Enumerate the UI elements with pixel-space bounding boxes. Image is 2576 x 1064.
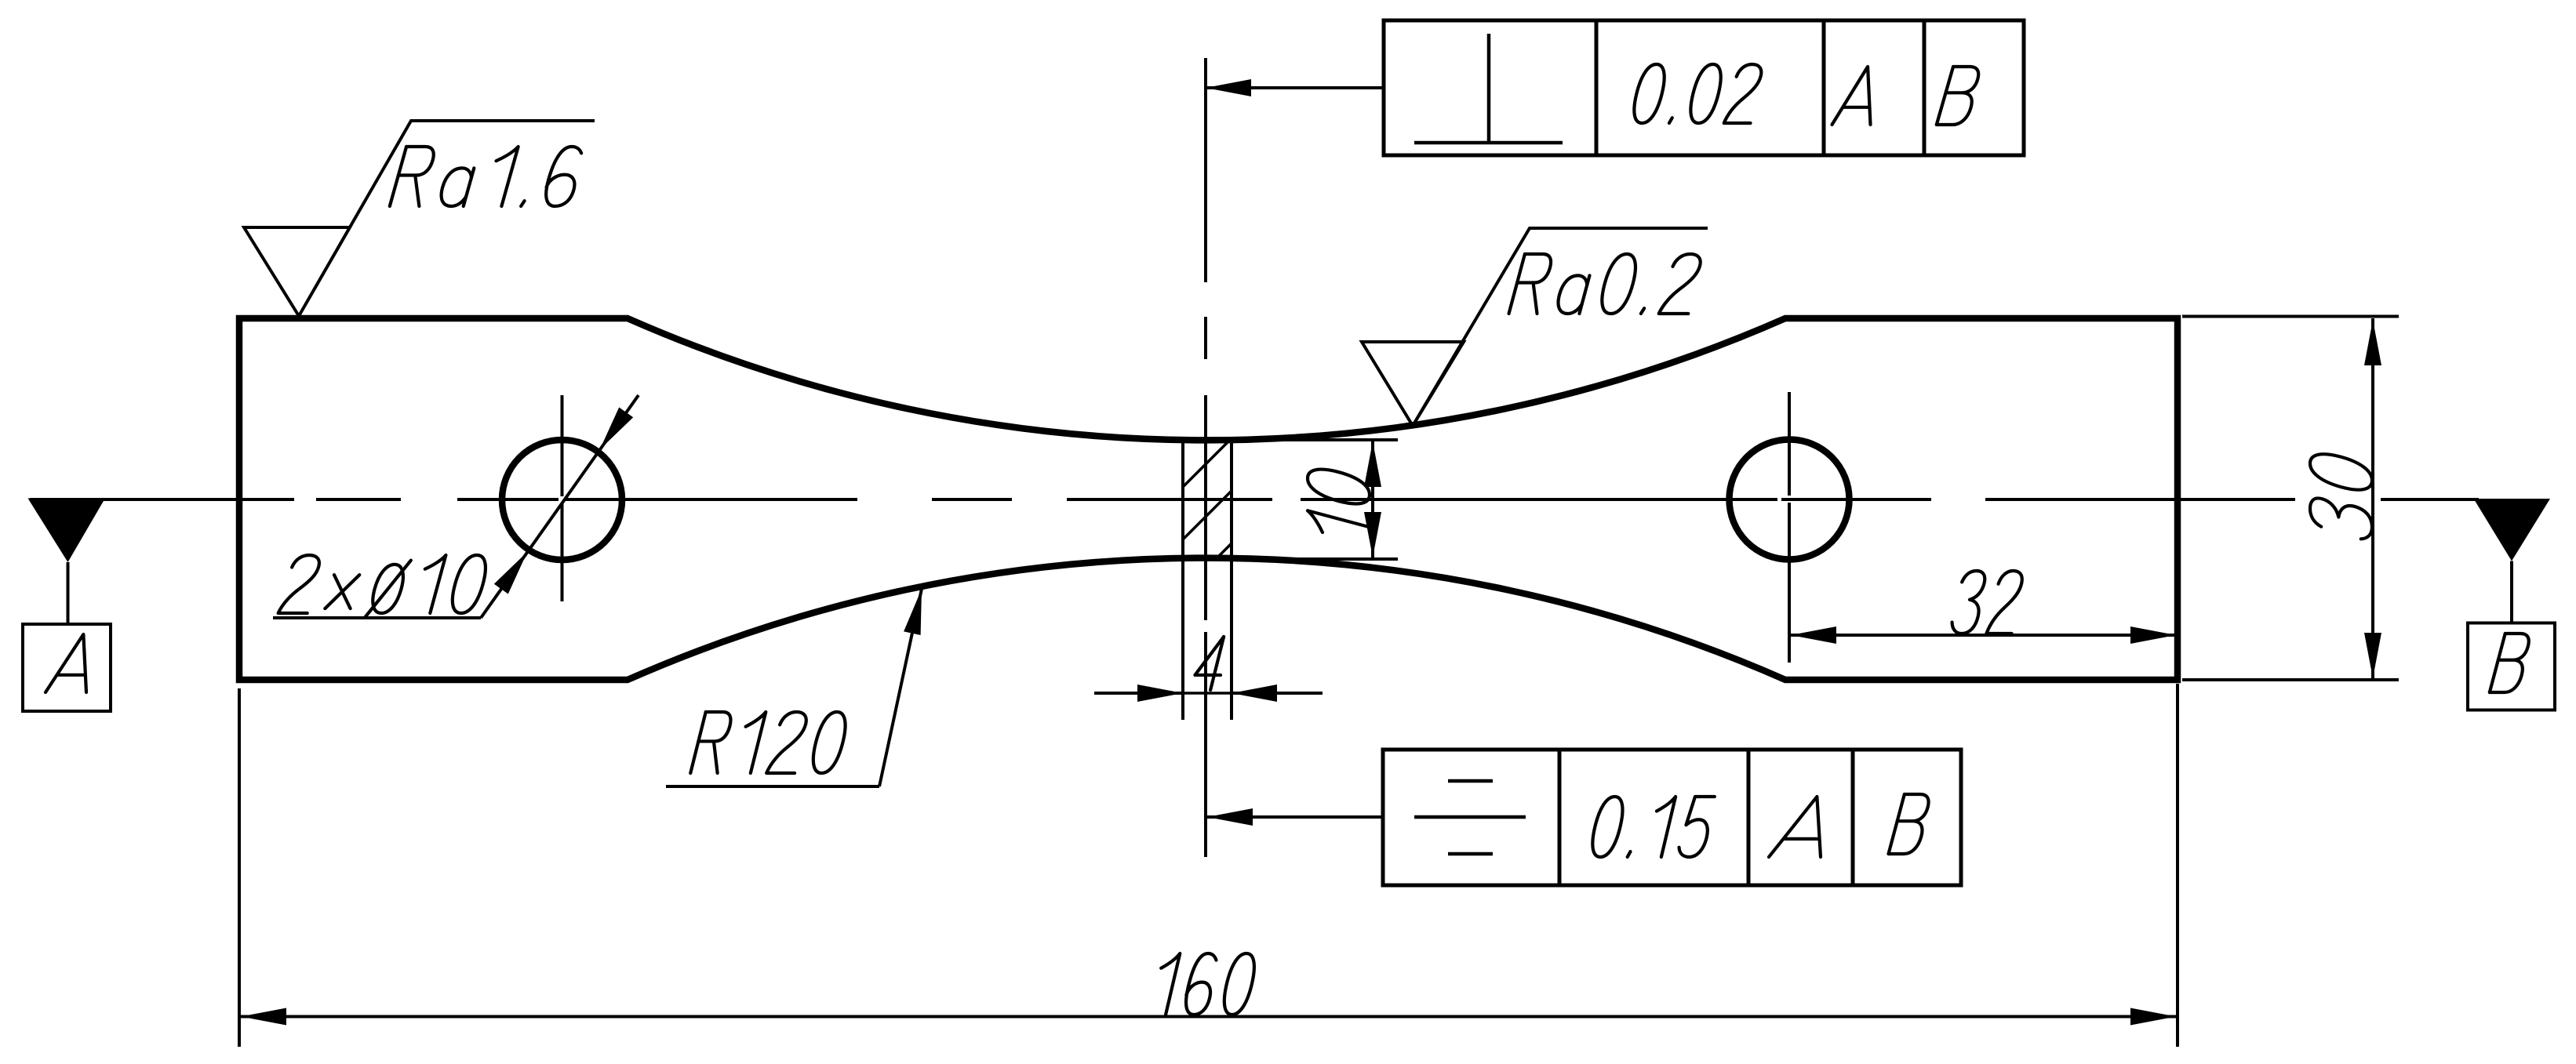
text R120 bbox=[690, 712, 850, 773]
dim 10 text bbox=[1308, 464, 1370, 545]
leader to bottom FCF bbox=[1206, 815, 1383, 819]
dim 160 text bbox=[1150, 953, 1259, 1015]
dim 32 text bbox=[1949, 571, 2025, 634]
symmetry symbol bbox=[1414, 815, 1526, 819]
datum B stem bbox=[2510, 561, 2513, 623]
text 2x dia10 bbox=[277, 555, 491, 617]
datum B letter bbox=[2490, 634, 2533, 692]
datum B box bbox=[2468, 623, 2555, 710]
text Ra1.6 bbox=[390, 147, 586, 206]
specimen outline bbox=[239, 318, 2178, 680]
FCF top texts bbox=[1629, 64, 1765, 123]
dim 160 line bbox=[239, 1015, 2178, 1019]
dim 10 line bbox=[1371, 440, 1374, 559]
perpendicularity symbol bbox=[1487, 34, 1491, 143]
datum A stem bbox=[67, 562, 70, 624]
surface symbol Ra0.2 bbox=[1362, 228, 1708, 426]
FCF perpendicularity box bbox=[1384, 20, 2024, 155]
horizontal centerline bbox=[30, 498, 294, 501]
dim 32 line bbox=[1789, 634, 2178, 637]
surface symbol Ra1.6 bbox=[244, 121, 595, 316]
hole left 2x dia10 bbox=[502, 440, 622, 560]
leader 2x dia10 bbox=[481, 395, 639, 618]
dim 30 line bbox=[2371, 318, 2374, 680]
hole right 2x dia10 bbox=[1730, 440, 1850, 560]
dim 30 text bbox=[2310, 448, 2372, 542]
text Ra0.2 bbox=[1509, 254, 1705, 314]
FCF bottom texts bbox=[1588, 797, 1716, 857]
datum B triangle bbox=[2474, 499, 2551, 561]
leader to top FCF bbox=[1204, 86, 1384, 89]
section hatching bbox=[1183, 438, 1232, 592]
datum A triangle bbox=[28, 499, 106, 563]
dim 30 extension lines bbox=[2182, 315, 2399, 318]
dim 4 text bbox=[1192, 637, 1231, 690]
crosshair left hole bbox=[561, 395, 564, 496]
leader R120 bbox=[666, 785, 879, 788]
dim 160 extension lines bbox=[238, 688, 241, 1047]
dim 4 lines bbox=[1094, 692, 1183, 695]
section cut lines bbox=[1181, 440, 1184, 720]
FCF symmetry box bbox=[1383, 750, 1961, 885]
dim 10 extension lines bbox=[1232, 438, 1398, 441]
datum A letter bbox=[45, 634, 104, 692]
vertical centerline of section bbox=[1204, 58, 1207, 282]
datum A box bbox=[23, 624, 111, 711]
crosshair right hole bbox=[1788, 392, 1791, 496]
